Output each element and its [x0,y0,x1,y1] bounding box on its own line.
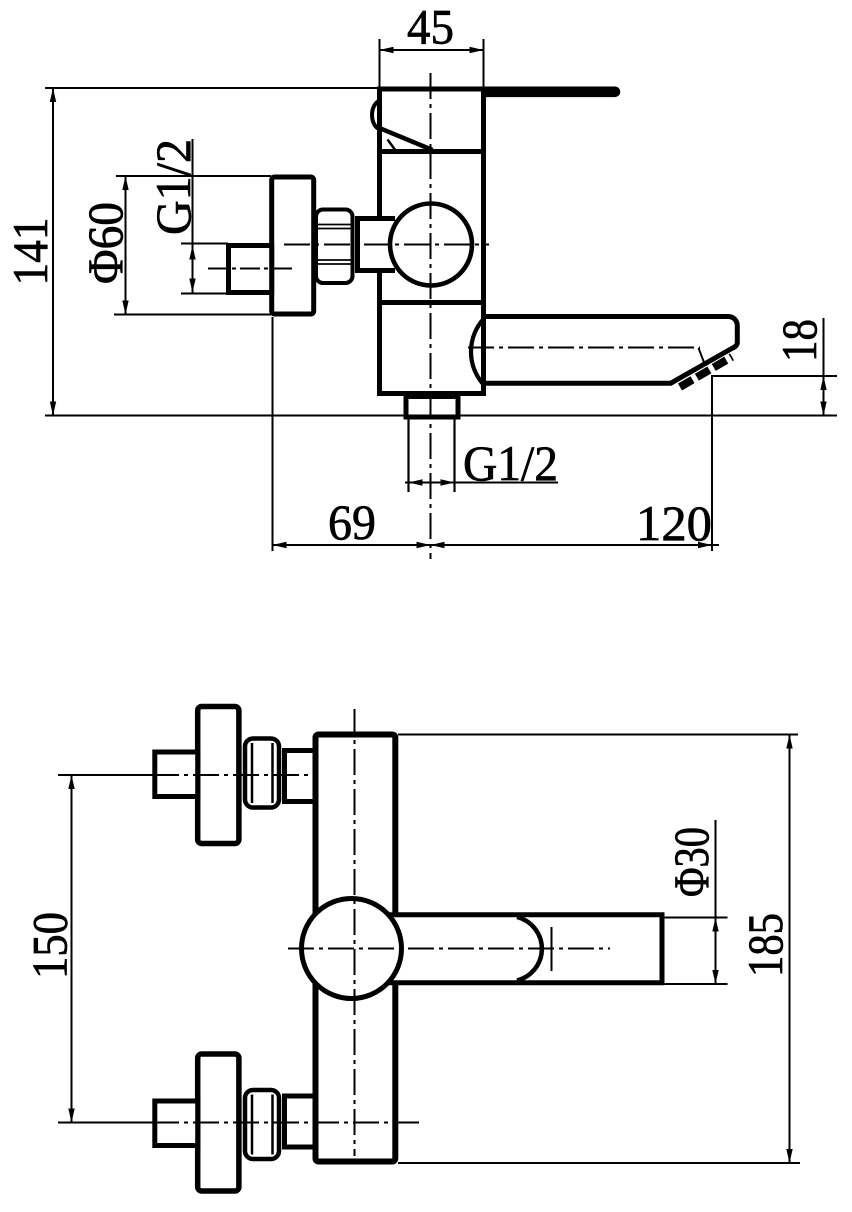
spout base arc on body [471,319,484,386]
svg-text:Φ60: Φ60 [77,202,133,284]
outlet fitting below body [406,397,458,418]
svg-text:141: 141 [2,218,58,286]
nut facet lines [251,743,254,803]
long bottom reference extension line (141 / 18) [45,415,837,417]
nut thread lines [317,225,351,265]
svg-text:G1/2: G1/2 [463,435,558,491]
handle base inner diagonal [388,140,397,152]
coupling nut (front view) [245,739,279,808]
spout (side view) outline [484,316,737,383]
coupling nut (threaded) [316,210,353,284]
svg-text:18: 18 [771,319,827,362]
dimension G1/2 (tailpiece) [405,435,558,491]
valve ball circle [390,204,472,286]
faucet body (front view) [316,735,396,1162]
tailpiece G1/2 left edge [407,417,409,492]
dimension 141 [2,88,58,416]
dimension 150 [22,775,78,1123]
inlet cylinder (front view) [285,751,317,802]
upper wall connector assembly (front view) [155,707,316,844]
dimension 45 [380,0,484,87]
body lower divider line [377,300,486,305]
aerator axis diagonal [699,348,706,365]
dimension 185 [398,735,800,1164]
handle base diagonal edge [381,129,433,151]
lower wall connector assembly (front view) [155,1054,316,1191]
ball joint circle (front view) [302,899,402,999]
svg-text:150: 150 [22,912,78,979]
valve horizontal centerline [284,244,489,246]
svg-text:45: 45 [407,0,454,55]
wall stub (front view) [155,752,198,797]
dimension 18 [712,318,837,416]
wall flange (front view) [198,707,239,844]
spout pipe (front view) [377,915,662,983]
wall inlet stub G1/2 [229,246,272,293]
dimensions 69 and 120 [273,317,720,551]
faucet body (side view) [380,89,484,394]
dimension D60 [77,176,271,315]
spout centerline [468,347,700,349]
handle pivot arc [372,101,381,130]
wall flange (escutcheon, side view) [272,177,314,314]
aerator grille dashes [680,357,732,387]
body collar line [377,149,486,154]
svg-text:185: 185 [737,913,793,977]
body vertical centerline (front view) [354,709,356,1156]
dimension G1/2 (wall stub) [145,139,228,294]
spout pipe joint line [551,927,553,971]
dimension 141 top extension line [45,87,377,89]
upper inlet centerline [58,774,153,776]
dimension D30 [663,820,728,984]
spout horn cap arc [517,917,542,981]
inlet cylinder between nut and valve [358,219,396,271]
svg-text:G1/2: G1/2 [145,139,201,235]
handle lever bar [483,87,620,98]
body vertical centerline [430,73,432,559]
spout axis centerline (front view) [288,948,610,950]
lower inlet centerline [58,1122,153,1124]
svg-text:Φ30: Φ30 [663,827,719,897]
tailpiece G1/2 right edge [453,417,455,492]
svg-text:120: 120 [636,495,712,551]
wall stub centerline [208,268,294,270]
svg-text:69: 69 [328,494,376,550]
